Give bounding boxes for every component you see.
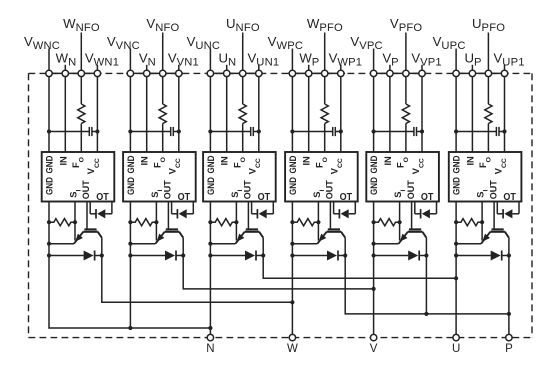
wire collector block 5 bbox=[425, 238, 427, 256]
border segment (solid) block 1 bbox=[45, 72, 102, 74]
wire cap row left block 6 bbox=[456, 131, 496, 133]
wire FO pin upper block 1 bbox=[80, 77, 82, 104]
capacitor C1 bbox=[88, 127, 90, 136]
wire cap row right block 2 bbox=[173, 131, 179, 133]
wire cap row right block 4 bbox=[335, 131, 341, 133]
wire OT pin a block 6 bbox=[496, 202, 498, 214]
terminal WNFO bbox=[78, 70, 84, 76]
junction emitter-GND block 5 bbox=[372, 242, 376, 246]
terminal UP bbox=[469, 70, 475, 76]
junction R2b left bbox=[128, 220, 132, 224]
wire SI down block 2 bbox=[155, 202, 157, 241]
wire emitter block 1 bbox=[49, 243, 74, 245]
wire GND down block 6 bbox=[455, 202, 457, 256]
svg-text:GND: GND bbox=[369, 177, 379, 195]
wire UP stub bbox=[471, 65, 473, 70]
wire collector block 1 bbox=[101, 238, 103, 256]
resistor R3b (SI-GND) bbox=[210, 219, 236, 226]
wire block5 emitter to V terminal bbox=[373, 256, 375, 335]
svg-text:GND: GND bbox=[45, 177, 55, 195]
wire OUT down block 4 bbox=[329, 202, 331, 230]
transistor Q6 (IGBT) bbox=[481, 229, 509, 243]
wire UN stub bbox=[226, 65, 228, 70]
diode D4a (OT clamp) bbox=[334, 213, 340, 215]
wire VVPC stub bbox=[373, 49, 375, 71]
junction cap-VCC block 3 bbox=[257, 129, 261, 133]
wire VUNC stub bbox=[209, 49, 211, 71]
border segment (solid) block 4 bbox=[288, 72, 345, 74]
wire WN stub bbox=[64, 65, 66, 70]
wire SI down block 4 bbox=[317, 202, 319, 241]
wire VWNC stub bbox=[48, 49, 50, 71]
wire block3 emitter to N terminal bbox=[209, 256, 211, 335]
junction emitter-GND block 1 bbox=[47, 242, 51, 246]
op-amp U5 (gate driver IC) bbox=[366, 152, 439, 202]
wire SI down block 5 bbox=[399, 202, 401, 241]
junction R4b left bbox=[290, 220, 294, 224]
junction cap-GND block 1 bbox=[47, 129, 51, 133]
junction diode cathode block 2 bbox=[181, 253, 185, 257]
wire IN pin block 5 bbox=[389, 77, 391, 152]
svg-text:GND: GND bbox=[45, 155, 55, 173]
wire P bus (block4 collector to P) bbox=[345, 256, 509, 314]
wire FO pin lower block 4 bbox=[324, 124, 326, 153]
junction emitter-GND block 3 bbox=[208, 242, 212, 246]
wire GND down block 4 bbox=[291, 202, 293, 256]
resistor R2b (SI-GND) bbox=[130, 219, 156, 226]
diode D5a (OT clamp) bbox=[415, 213, 421, 215]
junction diode anode block 1 bbox=[47, 253, 51, 257]
wire OT pin a block 1 bbox=[89, 202, 91, 214]
module outline (dashed) right bbox=[531, 73, 533, 337]
terminal VWNC bbox=[46, 70, 52, 76]
terminal VVNC bbox=[127, 70, 133, 76]
wire VCC pin block 5 bbox=[421, 77, 423, 152]
terminal P bbox=[506, 334, 512, 340]
svg-text:IN: IN bbox=[220, 156, 230, 166]
junction U route bbox=[454, 276, 458, 280]
wire OUT down block 3 bbox=[247, 202, 249, 230]
transistor Q4 (IGBT) bbox=[317, 229, 345, 243]
wire block2 collector to V bbox=[183, 256, 373, 289]
wire collector block 4 bbox=[344, 238, 346, 256]
wire WP stub bbox=[308, 65, 310, 70]
terminal U bbox=[453, 334, 459, 340]
wire N bus (block1 emitter to N) bbox=[49, 256, 210, 329]
resistor R6a (FO pull-up) bbox=[485, 104, 492, 124]
junction diode cathode block 5 bbox=[424, 253, 428, 257]
wire VCC pin block 6 bbox=[504, 77, 506, 152]
svg-text:OUT: OUT bbox=[488, 180, 498, 199]
junction diode anode block 6 bbox=[454, 253, 458, 257]
terminal WP bbox=[306, 70, 312, 76]
wire GND down block 1 bbox=[48, 202, 50, 256]
svg-text:OUT: OUT bbox=[325, 180, 335, 199]
wire GND down block 5 bbox=[373, 202, 375, 256]
wire FO pin lower block 1 bbox=[80, 124, 82, 153]
wire cap row left block 5 bbox=[374, 131, 414, 133]
wire FO pin lower block 5 bbox=[405, 124, 407, 153]
wire FO pin upper block 3 bbox=[242, 77, 244, 104]
resistor R6b (SI-GND) bbox=[456, 219, 482, 226]
wire OUT down block 6 bbox=[493, 202, 495, 230]
wire FO pin lower block 2 bbox=[162, 124, 164, 153]
junction diode cathode block 1 bbox=[100, 253, 104, 257]
wire UNFO stub bbox=[242, 33, 244, 71]
wire VVN1 stub bbox=[178, 65, 180, 70]
diode D6a (OT clamp) bbox=[497, 213, 503, 215]
svg-text:U: U bbox=[452, 343, 460, 355]
junction cap-GND block 5 bbox=[372, 129, 376, 133]
svg-text:GND: GND bbox=[369, 155, 379, 173]
svg-text:OT: OT bbox=[340, 192, 353, 203]
terminal VWPC bbox=[289, 70, 295, 76]
terminal VPFO bbox=[403, 70, 409, 76]
svg-text:GND: GND bbox=[288, 177, 298, 195]
wire VWP1 stub bbox=[340, 65, 342, 70]
wire SI down block 1 bbox=[74, 202, 76, 241]
module outline (dashed) top bbox=[29, 72, 533, 74]
wire OT pin a block 4 bbox=[333, 202, 335, 214]
junction cap-VCC block 6 bbox=[502, 129, 506, 133]
wire OT pin a block 5 bbox=[414, 202, 416, 214]
terminal VWN1 bbox=[94, 70, 100, 76]
capacitor C5 bbox=[413, 127, 415, 136]
capacitor C2 bbox=[170, 127, 172, 136]
junction R3b left bbox=[208, 220, 212, 224]
wire block5 collector down bbox=[425, 256, 427, 314]
capacitor C4 bbox=[332, 127, 334, 136]
junction diode anode block 4 bbox=[290, 253, 294, 257]
junction cap-VCC block 2 bbox=[177, 129, 181, 133]
wire cap row right block 5 bbox=[417, 131, 423, 133]
wire OUT down block 1 bbox=[86, 202, 88, 230]
wire cap row right block 6 bbox=[499, 131, 505, 133]
wire IN pin block 3 bbox=[226, 77, 228, 152]
junction V route bbox=[372, 287, 376, 291]
resistor R4a (FO pull-up) bbox=[321, 104, 328, 124]
diode D1b (freewheel) bbox=[49, 255, 84, 257]
wire WNFO stub bbox=[80, 33, 82, 71]
svg-text:GND: GND bbox=[452, 177, 462, 195]
svg-text:IN: IN bbox=[383, 156, 393, 166]
junction R6b left bbox=[454, 220, 458, 224]
wire SI down block 6 bbox=[481, 202, 483, 241]
wire emitter block 2 bbox=[130, 243, 155, 245]
diode D3b (freewheel) bbox=[210, 255, 245, 257]
wire emitter block 5 bbox=[374, 243, 399, 245]
wire VUP1 stub bbox=[504, 65, 506, 70]
junction cap-GND block 3 bbox=[208, 129, 212, 133]
svg-text:OT: OT bbox=[178, 192, 191, 203]
wire VCC pin block 1 bbox=[96, 77, 98, 152]
junction R6b right bbox=[480, 220, 484, 224]
terminal VP bbox=[387, 70, 393, 76]
wire VP stub bbox=[389, 65, 391, 70]
terminal W bbox=[289, 334, 295, 340]
svg-text:OUT: OUT bbox=[406, 180, 416, 199]
junction R3b right bbox=[234, 220, 238, 224]
svg-text:GND: GND bbox=[206, 177, 216, 195]
wire GND down block 3 bbox=[209, 202, 211, 256]
wire GND pin block 4 bbox=[291, 77, 293, 152]
wire cap row left block 3 bbox=[210, 131, 250, 133]
wire IN pin block 6 bbox=[471, 77, 473, 152]
svg-text:IN: IN bbox=[465, 156, 475, 166]
junction emitter-GND block 2 bbox=[128, 242, 132, 246]
junction emitter-GND block 6 bbox=[454, 242, 458, 246]
junction N bus block2 bbox=[128, 326, 132, 330]
wire emitter block 3 bbox=[210, 243, 235, 245]
resistor R5a (FO pull-up) bbox=[402, 104, 409, 124]
svg-text:OT: OT bbox=[503, 192, 516, 203]
junction cap-VCC block 1 bbox=[95, 129, 99, 133]
svg-text:W: W bbox=[287, 343, 298, 355]
wire OT pin b block 4 bbox=[354, 202, 356, 214]
terminal V bbox=[370, 334, 376, 340]
junction cap-GND block 2 bbox=[128, 129, 132, 133]
op-amp U3 (gate driver IC) bbox=[203, 152, 276, 202]
wire FO pin upper block 2 bbox=[162, 77, 164, 104]
wire block6 emitter to U terminal bbox=[455, 256, 457, 335]
diode D5b (freewheel) bbox=[374, 255, 409, 257]
wire collector block 3 bbox=[262, 238, 264, 256]
svg-text:V: V bbox=[370, 343, 378, 355]
capacitor C6 bbox=[495, 127, 497, 136]
svg-text:IN: IN bbox=[302, 156, 312, 166]
junction P bus block5 bbox=[424, 312, 428, 316]
svg-text:GND: GND bbox=[126, 155, 136, 173]
wire VCC pin block 4 bbox=[340, 77, 342, 152]
svg-text:OUT: OUT bbox=[81, 180, 91, 199]
junction W route bbox=[290, 300, 294, 304]
junction R2b right bbox=[154, 220, 158, 224]
wire GND down block 2 bbox=[129, 202, 131, 256]
resistor R3a (FO pull-up) bbox=[239, 104, 246, 124]
wire IN pin block 1 bbox=[64, 77, 66, 152]
border segment (solid) block 5 bbox=[369, 72, 426, 74]
resistor R1a (FO pull-up) bbox=[78, 104, 85, 124]
terminal VWP1 bbox=[338, 70, 344, 76]
terminal VVN1 bbox=[176, 70, 182, 76]
svg-text:OT: OT bbox=[421, 192, 434, 203]
diode D4b (freewheel) bbox=[292, 255, 327, 257]
wire OT pin b block 6 bbox=[518, 202, 520, 214]
wire GND pin block 1 bbox=[48, 77, 50, 152]
wire UPFO stub bbox=[487, 33, 489, 71]
resistor R1b (SI-GND) bbox=[49, 219, 75, 226]
terminal VUN1 bbox=[256, 70, 262, 76]
wire IN pin block 4 bbox=[308, 77, 310, 152]
svg-text:OT: OT bbox=[96, 192, 109, 203]
wire VWN1 stub bbox=[96, 65, 98, 70]
op-amp U4 (gate driver IC) bbox=[285, 152, 358, 202]
diode D6b (freewheel) bbox=[456, 255, 491, 257]
wire VCC pin block 3 bbox=[258, 77, 260, 152]
svg-text:N: N bbox=[206, 343, 214, 355]
wire OUT down block 2 bbox=[167, 202, 169, 230]
wire GND pin block 5 bbox=[373, 77, 375, 152]
terminal VN bbox=[144, 70, 150, 76]
wire block2 emitter down bbox=[129, 256, 131, 329]
wire OT pin b block 5 bbox=[436, 202, 438, 214]
svg-text:OUT: OUT bbox=[243, 180, 253, 199]
svg-text:P: P bbox=[505, 343, 513, 355]
wire block6 collector to P terminal bbox=[508, 256, 510, 335]
svg-text:GND: GND bbox=[288, 155, 298, 173]
wire VVNC stub bbox=[129, 49, 131, 71]
wire FO pin upper block 4 bbox=[324, 77, 326, 104]
svg-text:IN: IN bbox=[58, 156, 68, 166]
wire cap row right block 3 bbox=[253, 131, 258, 133]
wire cap row right block 1 bbox=[92, 131, 98, 133]
junction diode cathode block 3 bbox=[261, 253, 265, 257]
wire FO pin upper block 5 bbox=[405, 77, 407, 104]
junction P bus at block6 collector bbox=[507, 312, 511, 316]
wire cap row left block 2 bbox=[130, 131, 170, 133]
wire FO pin lower block 3 bbox=[242, 124, 244, 153]
wire OUT down block 5 bbox=[411, 202, 413, 230]
junction R1b right bbox=[73, 220, 77, 224]
wire GND pin block 6 bbox=[455, 77, 457, 152]
terminal VNFO bbox=[160, 70, 166, 76]
wire OT pin b block 1 bbox=[111, 202, 113, 214]
wire SI down block 3 bbox=[235, 202, 237, 241]
junction cap-VCC block 4 bbox=[339, 129, 343, 133]
junction cap-GND block 4 bbox=[290, 129, 294, 133]
wire collector block 6 bbox=[508, 238, 510, 256]
wire block4 emitter to W terminal bbox=[291, 256, 293, 335]
terminal VVP1 bbox=[419, 70, 425, 76]
svg-text:GND: GND bbox=[452, 155, 462, 173]
junction R4b right bbox=[316, 220, 320, 224]
transistor Q3 (IGBT) bbox=[235, 229, 263, 243]
wire OT pin a block 3 bbox=[251, 202, 253, 214]
border segment (solid) block 3 bbox=[206, 72, 263, 74]
wire VPFO stub bbox=[405, 33, 407, 71]
module outline (dashed) bottom bbox=[29, 337, 533, 339]
junction R5b left bbox=[372, 220, 376, 224]
junction N bus at N terminal bbox=[208, 326, 212, 330]
wire GND pin block 2 bbox=[129, 77, 131, 152]
border segment (solid) block 6 bbox=[452, 72, 509, 74]
junction diode anode block 2 bbox=[128, 253, 132, 257]
resistor R4b (SI-GND) bbox=[292, 219, 318, 226]
terminal VUPC bbox=[453, 70, 459, 76]
op-amp U2 (gate driver IC) bbox=[123, 152, 196, 202]
junction diode anode block 3 bbox=[208, 253, 212, 257]
junction diode cathode block 6 bbox=[507, 253, 511, 257]
wire FO pin lower block 6 bbox=[487, 124, 489, 153]
module outline (dashed) left bbox=[28, 73, 30, 337]
svg-text:GND: GND bbox=[206, 155, 216, 173]
diode D1a (OT clamp) bbox=[90, 213, 96, 215]
wire OT pin b block 2 bbox=[192, 202, 194, 214]
terminal UPFO bbox=[485, 70, 491, 76]
terminal UN bbox=[224, 70, 230, 76]
wire VN stub bbox=[146, 65, 148, 70]
wire VVP1 stub bbox=[421, 65, 423, 70]
wire block3 collector to U bbox=[263, 256, 456, 279]
op-amp U6 (gate driver IC) bbox=[449, 152, 522, 202]
terminal VUP1 bbox=[501, 70, 507, 76]
junction cap-GND block 6 bbox=[454, 129, 458, 133]
terminal N bbox=[207, 334, 213, 340]
resistor R2a (FO pull-up) bbox=[159, 104, 166, 124]
wire OT pin b block 3 bbox=[272, 202, 274, 214]
transistor Q1 (IGBT) bbox=[74, 229, 102, 243]
wire emitter block 6 bbox=[456, 243, 481, 245]
wire cap row left block 4 bbox=[292, 131, 332, 133]
svg-text:OT: OT bbox=[258, 192, 271, 203]
terminal UNFO bbox=[240, 70, 246, 76]
wire WPFO stub bbox=[324, 33, 326, 71]
transistor Q5 (IGBT) bbox=[399, 229, 427, 243]
junction emitter-GND block 4 bbox=[290, 242, 294, 246]
resistor R5b (SI-GND) bbox=[374, 219, 400, 226]
junction R1b left bbox=[47, 220, 51, 224]
wire GND pin block 3 bbox=[209, 77, 211, 152]
transistor Q2 (IGBT) bbox=[155, 229, 183, 243]
wire VCC pin block 2 bbox=[178, 77, 180, 152]
diode D3a (OT clamp) bbox=[252, 213, 258, 215]
junction diode cathode block 4 bbox=[343, 253, 347, 257]
wire OT pin a block 2 bbox=[171, 202, 173, 214]
terminal WN bbox=[62, 70, 68, 76]
wire VUN1 stub bbox=[258, 65, 260, 70]
wire VUPC stub bbox=[455, 49, 457, 71]
wire collector block 2 bbox=[182, 238, 184, 256]
terminal WPFO bbox=[322, 70, 328, 76]
terminal VUNC bbox=[207, 70, 213, 76]
junction R5b right bbox=[398, 220, 402, 224]
svg-text:GND: GND bbox=[126, 177, 136, 195]
terminal VVPC bbox=[370, 70, 376, 76]
diode D2b (freewheel) bbox=[130, 255, 165, 257]
junction cap-VCC block 5 bbox=[420, 129, 424, 133]
op-amp U1 (gate driver IC) bbox=[42, 152, 115, 202]
wire emitter block 4 bbox=[292, 243, 317, 245]
svg-text:OUT: OUT bbox=[163, 180, 173, 199]
wire block1 collector to W bbox=[102, 256, 293, 303]
border segment (solid) block 2 bbox=[126, 72, 183, 74]
wire VWPC stub bbox=[291, 49, 293, 71]
junction diode anode block 5 bbox=[372, 253, 376, 257]
wire VNFO stub bbox=[162, 33, 164, 71]
svg-text:IN: IN bbox=[140, 156, 150, 166]
capacitor C3 bbox=[250, 127, 252, 136]
wire IN pin block 2 bbox=[146, 77, 148, 152]
diode D2a (OT clamp) bbox=[172, 213, 178, 215]
wire cap row left block 1 bbox=[49, 131, 89, 133]
wire FO pin upper block 6 bbox=[487, 77, 489, 104]
